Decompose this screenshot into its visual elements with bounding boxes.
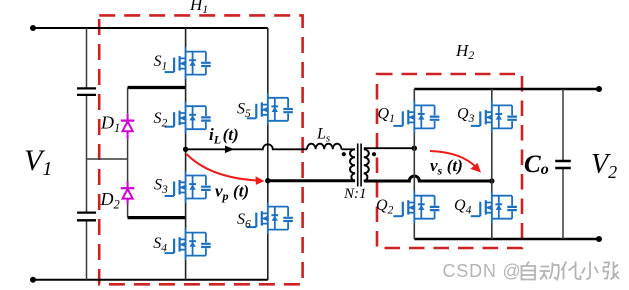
mosfet S3 — [165, 171, 211, 203]
wire primary bottom — [268, 179, 355, 182]
node secondary bottom at Q leg — [489, 178, 494, 183]
watermark CJK glyph dong — [540, 263, 559, 280]
wire H2 top rail — [414, 88, 599, 91]
node S2S3 midpoint — [183, 147, 188, 152]
wire H2 left leg — [413, 89, 415, 239]
capacitor input bottom — [77, 213, 96, 221]
H1 dashed box — [99, 15, 302, 284]
arrow vp — [187, 154, 260, 181]
mosfet S1 — [165, 47, 211, 79]
terminal dot bottom right — [596, 236, 602, 242]
wire input cap branch — [86, 28, 88, 280]
transformer dot secondary — [372, 152, 376, 156]
mosfet Q3 — [471, 101, 517, 133]
mosfet S5 — [247, 93, 293, 125]
diode D2 — [121, 182, 135, 205]
wire diode column — [127, 88, 129, 218]
mosfet Q2 — [393, 191, 439, 223]
transformer primary winding — [350, 149, 355, 181]
svg-text:vs(t): vs(t) — [430, 156, 463, 178]
transformer core — [358, 144, 361, 187]
wire thick link S3S4 to D2 — [128, 216, 186, 219]
watermark CJK glyph zhang — [604, 262, 620, 280]
wire bottom rail — [33, 279, 268, 281]
mosfet S2 — [165, 102, 211, 134]
wire inductor to transformer — [341, 148, 355, 150]
diode D1 — [121, 114, 135, 139]
node secondary top at Q leg — [412, 146, 417, 151]
wire secondary bottom with hump — [364, 176, 492, 181]
svg-text:iL(t): iL(t) — [209, 125, 239, 147]
wire secondary top — [364, 147, 415, 149]
capacitor input top — [77, 88, 96, 95]
wire thick link S1S2 to D1 — [128, 86, 186, 89]
svg-text:CSDN @: CSDN @ — [443, 261, 522, 281]
mosfet Q4 — [471, 191, 517, 223]
wire H2 bottom rail — [414, 238, 599, 241]
wire Co branch — [562, 89, 564, 239]
wire cap midpoint to diodes — [87, 158, 128, 160]
wire top rail — [33, 27, 268, 29]
wire iL with hump over right leg — [186, 144, 307, 149]
terminal dot top right — [596, 86, 602, 92]
inductor Ls — [307, 144, 341, 150]
mosfet Q1 — [393, 101, 439, 133]
H2 dashed box — [377, 74, 522, 248]
transformer dot primary — [342, 152, 346, 156]
wire H2 right leg — [491, 89, 493, 239]
watermark CJK glyph zi — [522, 262, 536, 280]
transformer secondary winding — [364, 149, 369, 181]
terminal dot top left — [30, 25, 36, 31]
arrow vs — [430, 151, 478, 169]
wire H1 right leg — [267, 28, 269, 280]
svg-text:H1: H1 — [189, 0, 208, 16]
watermark CJK glyph hua — [561, 262, 580, 280]
node S5S6 midpoint — [265, 178, 270, 183]
svg-text:N:1: N:1 — [343, 186, 367, 202]
mosfet S6 — [247, 202, 293, 234]
terminal dot bottom left — [30, 277, 36, 283]
wire H1 left leg — [185, 28, 187, 280]
mosfet S4 — [165, 228, 211, 260]
watermark CJK glyph xiao — [582, 262, 598, 280]
capacitor Co — [555, 161, 571, 168]
iL current arrowhead — [225, 146, 234, 154]
